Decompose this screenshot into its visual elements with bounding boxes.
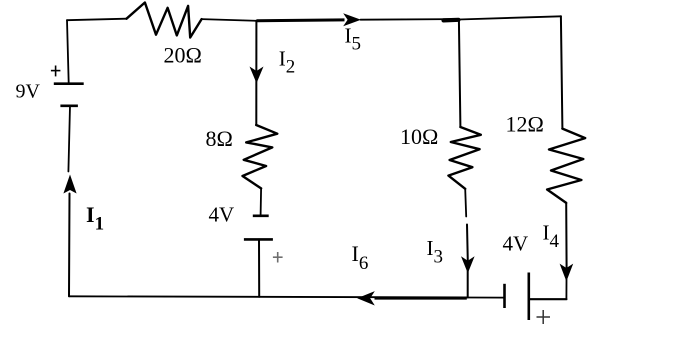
wire I3 tip to bottom wire <box>467 271 469 297</box>
battery B3 4V right short plate <box>503 284 506 308</box>
svg-text:10Ω: 10Ω <box>400 124 438 149</box>
wire I4 tip to corner <box>565 280 567 300</box>
resistor R 8ohm <box>243 125 278 188</box>
battery B1 plus sign <box>51 66 61 77</box>
svg-text:I2: I2 <box>279 47 296 78</box>
arrow I3 head <box>461 256 475 273</box>
wire bottom right to battery <box>467 297 504 299</box>
resistor R 10ohm <box>448 127 480 189</box>
svg-text:4V: 4V <box>503 232 529 256</box>
wire 12ohm to I4 <box>565 203 567 269</box>
battery B2 plus sign <box>273 252 283 263</box>
wire resistor to node A <box>202 19 257 21</box>
wire left vertical to battery <box>67 20 69 83</box>
wire top-left horizontal <box>67 19 127 21</box>
arrow I2 head <box>250 67 264 84</box>
wire middle branch vertical (node A down) <box>255 21 257 125</box>
battery B3 plus sign <box>537 310 551 324</box>
svg-text:20Ω: 20Ω <box>164 43 202 68</box>
wire right branch1 vertical (node B down) <box>459 20 461 127</box>
svg-text:8Ω: 8Ω <box>206 126 233 151</box>
wire I1 shaft left vertical <box>68 194 71 297</box>
resistor R 20ohm <box>127 3 202 38</box>
resistor R 12ohm <box>547 129 585 203</box>
svg-text:I5: I5 <box>345 24 362 55</box>
svg-text:4V: 4V <box>209 203 235 227</box>
svg-text:I4: I4 <box>543 221 560 253</box>
svg-text:I3: I3 <box>427 236 444 268</box>
node B junction <box>444 18 459 23</box>
battery B1 9V short plate <box>60 105 78 108</box>
wire node A to node B (under I5 arrow) <box>361 18 452 21</box>
wire 10ohm down <box>465 189 466 217</box>
wire I3 shaft <box>466 225 469 262</box>
wire mid battery to bottom <box>258 239 260 296</box>
wire 8ohm to mid battery <box>260 188 263 215</box>
arrow I1 head <box>63 175 76 194</box>
wire node B to top-right corner <box>459 16 561 19</box>
arrow I5 head <box>343 13 361 26</box>
svg-text:I1: I1 <box>86 202 104 235</box>
wire bottom horizontal <box>69 296 467 297</box>
wire below 9V battery <box>68 106 70 172</box>
wire right battery to I4 branch <box>529 298 567 300</box>
arrow I6 shaft <box>375 297 467 300</box>
battery B1 9V long plate <box>54 82 84 85</box>
wire right branch2 vertical (top-right corner down) <box>561 16 563 128</box>
arrow I6 head <box>357 291 375 305</box>
svg-text:I6: I6 <box>352 241 369 274</box>
battery B2 4V mid short plate <box>253 215 269 218</box>
battery B3 4V right long plate <box>527 273 530 321</box>
arrow I4 head <box>560 264 574 282</box>
battery B2 4V mid long plate <box>244 238 273 241</box>
svg-text:9V: 9V <box>16 81 41 103</box>
arrow I5 shaft <box>257 18 345 22</box>
svg-text:12Ω: 12Ω <box>506 112 544 137</box>
